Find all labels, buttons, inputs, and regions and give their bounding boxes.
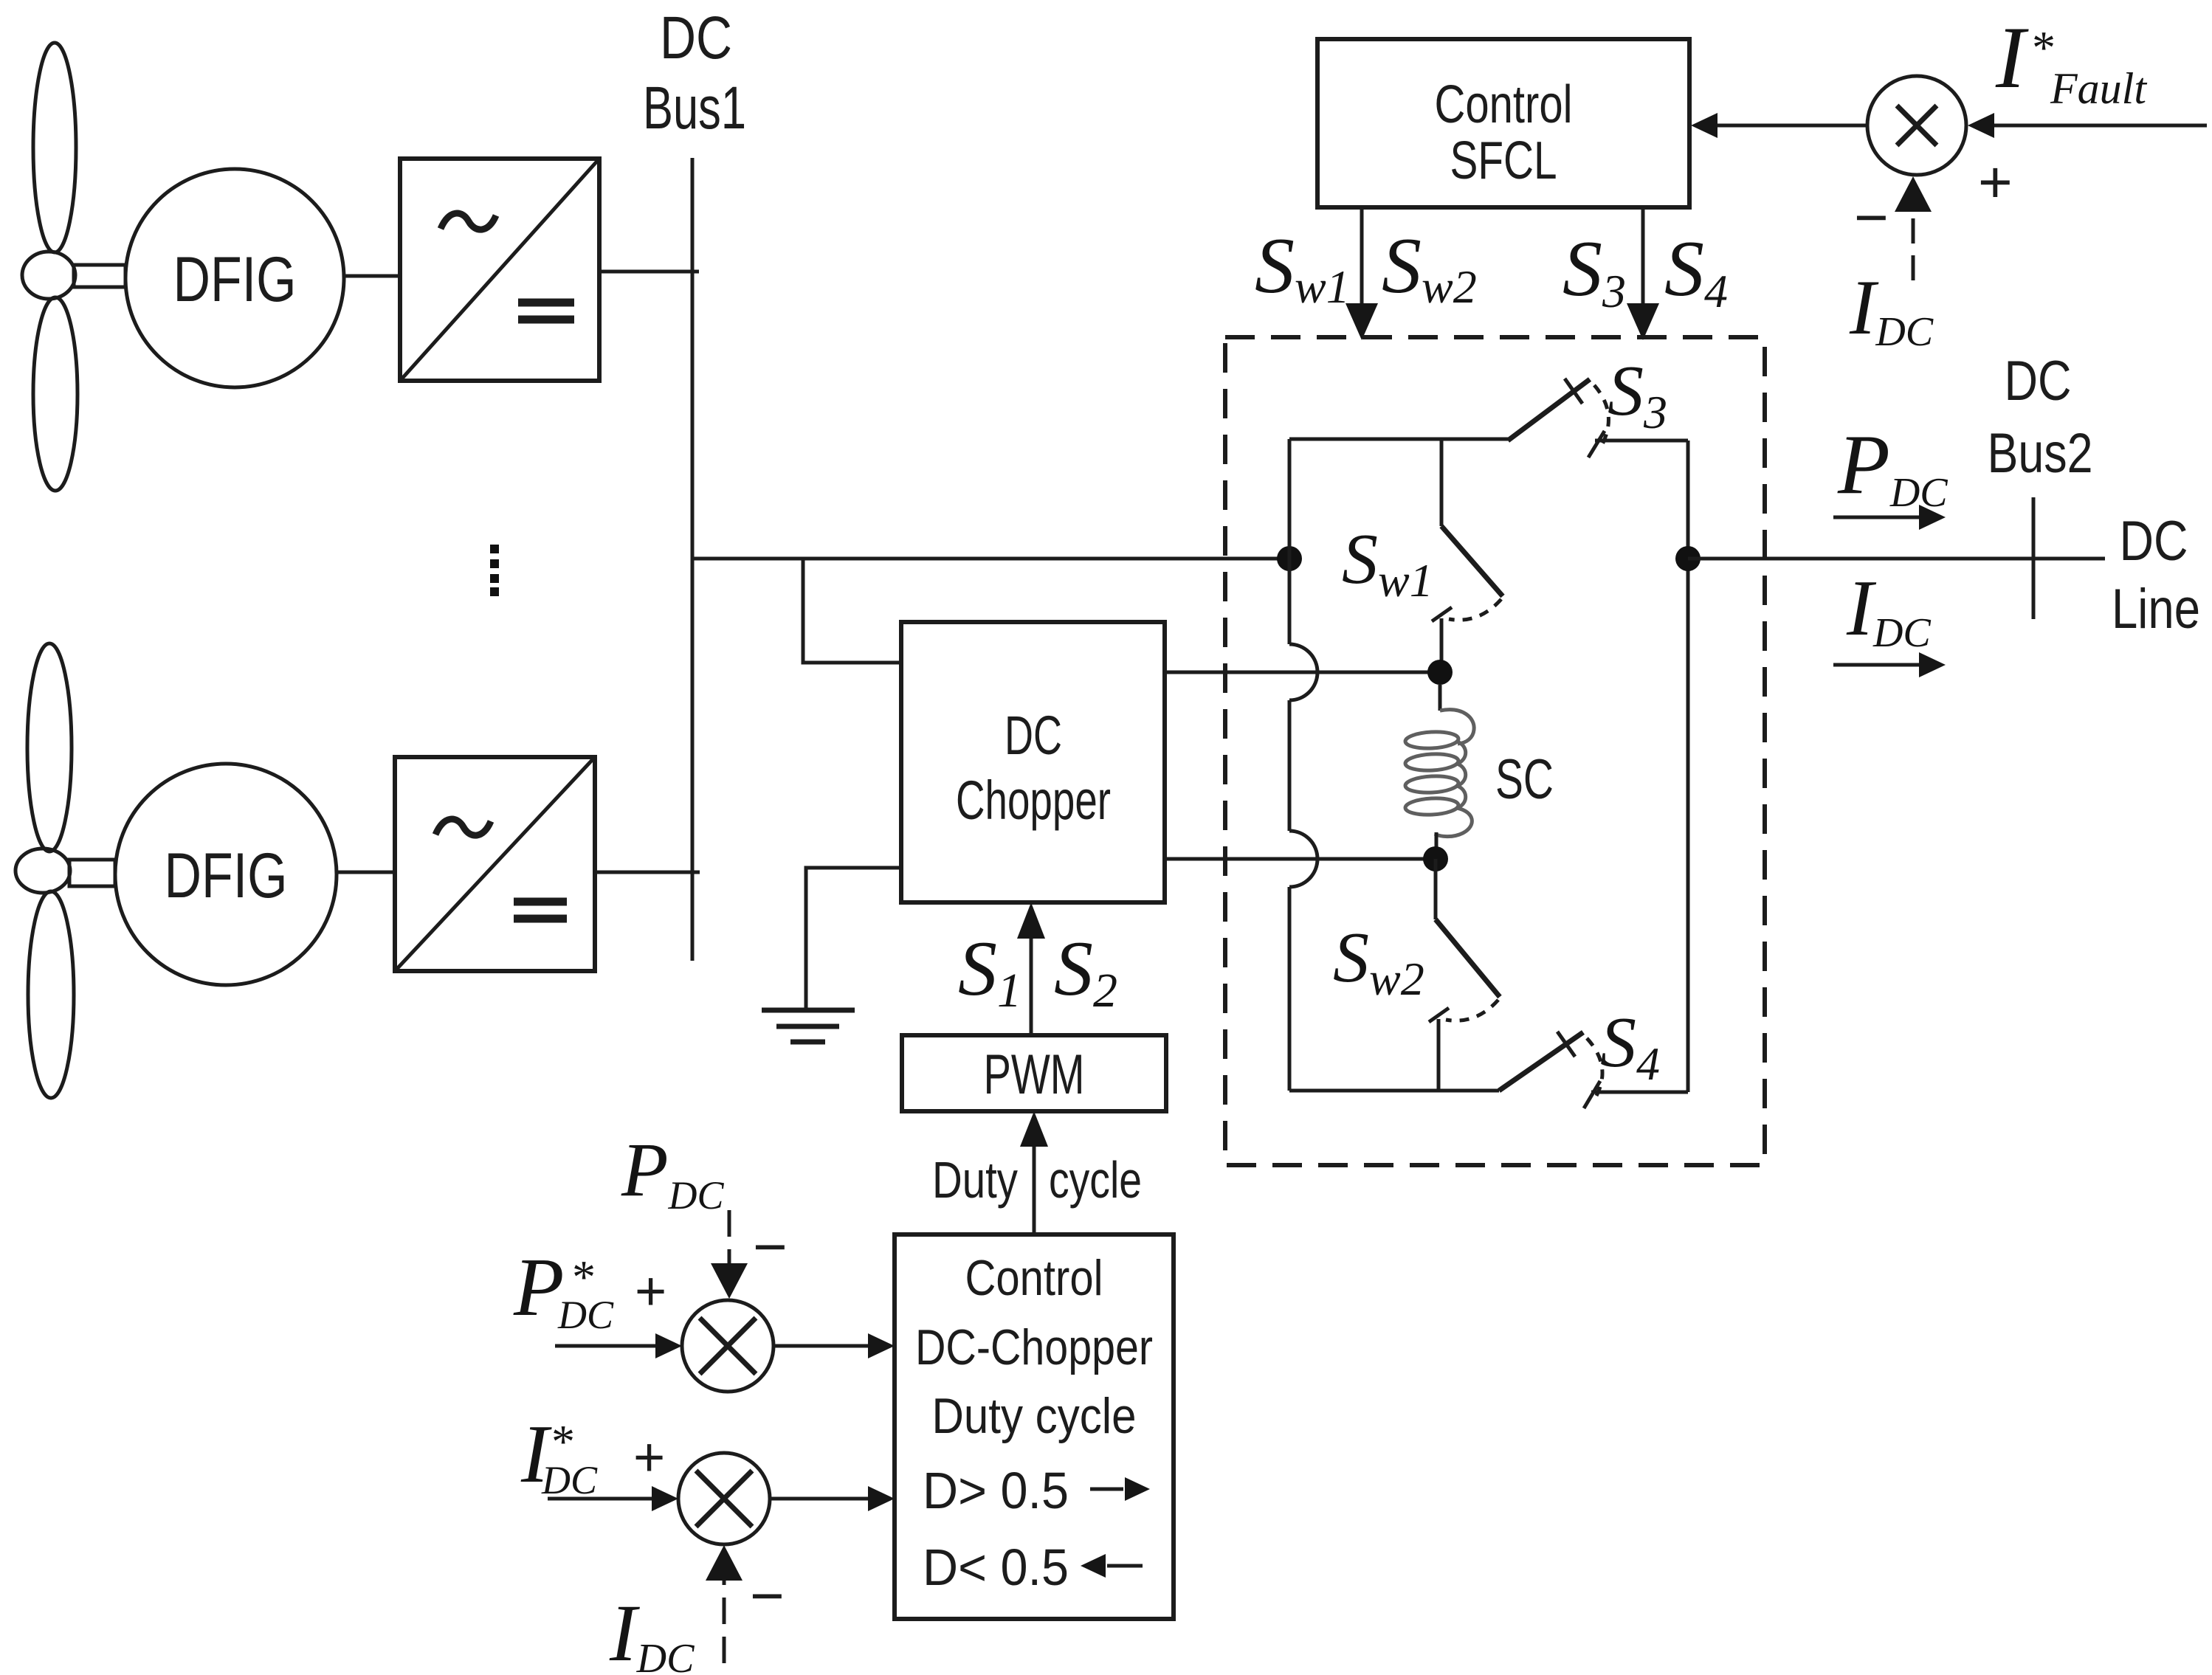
svg-text:SFCL: SFCL [1450,131,1557,190]
svg-text:Chopper: Chopper [956,770,1111,831]
svg-text:Bus2: Bus2 [1988,422,2093,485]
wire DC Chopper to ground [806,868,901,1010]
dashed wire I_DC into X2 [706,1545,742,1663]
svg-text:−: − [753,1214,788,1279]
wire I*_DC into X2 [548,1486,678,1511]
node B (top of SC) [1427,660,1453,685]
svg-text:D< 0.5: D< 0.5 [923,1538,1069,1596]
wire Control SFCL to switches S3 S4 [1627,207,1659,340]
svg-text:+: + [633,1426,665,1488]
svg-text:DC: DC [2005,350,2072,412]
switch S3 [1508,379,1688,457]
svg-text:DC: DC [660,4,732,72]
wire DFIG2 to converter U2 [337,871,395,874]
dashed wire I_DC into X3 [1895,176,1932,280]
node DC Bus1 (bus bar) [691,158,695,961]
svg-text:DC-Chopper: DC-Chopper [915,1319,1153,1375]
wind turbine WT1 [22,43,125,491]
wire DC Chopper top output to node B [1165,671,1432,674]
converter U1 (AC/DC) [400,159,599,381]
svg-text:PWM: PWM [984,1043,1085,1106]
arrow I_DC direction [1833,652,1946,677]
label I*_Fault (reference) [1995,8,2147,113]
svg-text:+: + [1978,149,2013,215]
label DC Line [2112,510,2200,640]
generator DFIG1 [125,169,344,387]
svg-text:P: P [513,1242,564,1333]
node C (bottom of SC) [1423,846,1448,871]
summer X3 (fault current comparator) [1867,76,1966,175]
svg-text:Control: Control [1435,75,1573,134]
summer X1 (P loop) [682,1300,773,1392]
wire DC Bus1 to SFCL node A [692,557,1284,561]
wire branch to DC Chopper input [803,559,901,663]
svg-text:D> 0.5: D> 0.5 [923,1462,1069,1519]
svg-text:DFIG: DFIG [165,840,288,911]
svg-text:+: + [635,1260,666,1322]
node D (right bus node) [1675,546,1701,571]
dashed enclosure SFCL unit [1225,337,1765,1165]
label Duty cycle [932,1151,1142,1209]
node DC Bus2 (bus tick) [2032,497,2036,619]
svg-text:DFIG: DFIG [173,244,297,315]
block DC Chopper [901,622,1165,902]
summer X2 (I loop) [678,1453,770,1544]
wire Control SFCL to switches Sw1 Sw2 [1346,207,1378,340]
wind turbine WT2 [15,643,115,1098]
svg-text:Fault: Fault [2050,64,2147,113]
dashed wire P_DC into X1 [711,1210,748,1299]
block Control SFCL [1317,39,1689,207]
block PWM [902,1035,1166,1111]
wire DFIG1 to converter U1 [344,274,400,278]
svg-text:−: − [1854,184,1889,250]
wire Control to PWM (Duty cycle) [1020,1111,1048,1234]
label DC Bus1 [643,4,746,142]
svg-text:SC: SC [1495,748,1554,811]
svg-text:Duty: Duty [932,1151,1018,1209]
wire bottom rail [1289,1089,1499,1093]
svg-text:DC: DC [1005,705,1062,766]
wire X2 to Control block [770,1486,895,1511]
ellipsis dots (more units) [490,545,499,596]
svg-text:DC: DC [557,1293,614,1337]
wire PWM to DC Chopper (gate signals) [1017,902,1045,1035]
arrow P_DC direction [1833,505,1946,530]
wire I*_Fault into X3 [1968,113,2207,138]
svg-text:I: I [1995,8,2029,106]
wire X3 to Control SFCL [1691,113,1867,138]
node A (left bus node) [1277,546,1302,571]
label P*_DC (reference) [513,1242,614,1337]
ground [762,1010,855,1042]
svg-text:Line: Line [2112,578,2200,640]
inductor SC (superconducting coil) [1405,685,1474,859]
label I*_DC (reference) [520,1409,598,1502]
wire X1 to Control block [773,1333,895,1358]
wire converter U1 to DC Bus1 [599,270,699,274]
svg-text:DC: DC [2120,510,2188,573]
svg-text:cycle: cycle [1049,1151,1142,1209]
wire left branch vertical (with hops) [1289,439,1317,1091]
wire node D to DC Bus2 [1688,557,2105,561]
wire converter U2 to DC Bus1 [595,871,700,874]
svg-text:DC: DC [541,1458,598,1502]
wire DC Chopper bottom output to node C [1165,857,1426,861]
wire top rail [1289,438,1508,441]
switch Sw1 [1432,439,1503,661]
svg-text:−: − [750,1563,785,1629]
svg-text:Bus1: Bus1 [643,75,746,142]
svg-text:Duty cycle: Duty cycle [932,1388,1137,1444]
generator DFIG2 [115,764,337,985]
switch Sw2 [1429,859,1500,1091]
wire right branch vertical [1686,441,1690,1092]
block Control DC-Chopper Duty cycle [895,1234,1174,1619]
label DC Bus2 [1988,350,2093,485]
switch S4 [1499,1032,1688,1108]
wire P*_DC into X1 [555,1333,682,1358]
converter U2 (AC/DC) [395,757,595,971]
svg-text:Control: Control [965,1250,1103,1306]
